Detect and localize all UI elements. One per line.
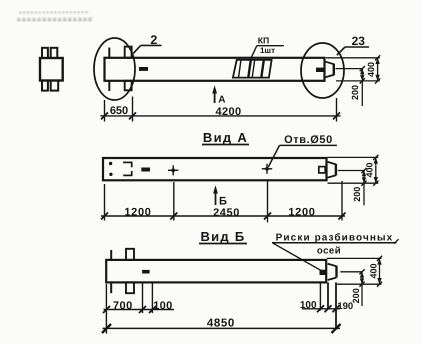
- section top tab 1: [42, 48, 48, 58]
- right end notch (filled) top view: [316, 68, 324, 72]
- dimension row left (700/100): [103, 282, 174, 333]
- dimension 200 (view B): [351, 269, 365, 306]
- svg-text:1шт: 1шт: [260, 46, 275, 55]
- right end console trapezoid view B: [328, 264, 337, 280]
- svg-text:4200: 4200: [215, 106, 241, 118]
- svg-text:200: 200: [352, 187, 362, 202]
- svg-text:Вид Б: Вид Б: [200, 229, 245, 244]
- svg-text:1200: 1200: [124, 206, 151, 218]
- svg-text:23: 23: [352, 34, 366, 48]
- dimension row right (100/190): [302, 305, 340, 312]
- label Otv d50: [268, 134, 337, 167]
- svg-text:200: 200: [350, 85, 360, 100]
- beam outline view B: [106, 260, 326, 283]
- svg-text:Отв.Ø50: Отв.Ø50: [284, 134, 333, 146]
- svg-text:осей: осей: [317, 245, 341, 256]
- extension bottom (view A 400): [328, 182, 379, 184]
- svg-text:190: 190: [337, 301, 353, 312]
- svg-text:4850: 4850: [207, 318, 235, 330]
- svg-text:400: 400: [369, 263, 379, 278]
- label 2: [133, 33, 161, 53]
- detail ellipse right (node 23): [301, 43, 344, 98]
- svg-text:400: 400: [366, 62, 376, 77]
- note Riski razbivochnyh osey: [272, 233, 399, 272]
- axis line to 200 dim (view A): [338, 170, 364, 172]
- svg-text:Вид А: Вид А: [203, 130, 248, 145]
- right end console trapezoid top view: [326, 62, 334, 77]
- section top tab 2: [51, 48, 58, 58]
- section bottom tab 1: [42, 81, 48, 91]
- dimension line top view (650 / 4200): [101, 97, 341, 122]
- hidden bracket mark view A: [123, 162, 133, 175]
- label 23: [337, 34, 369, 55]
- dimension 400 (view B): [369, 256, 383, 287]
- faint erased pencil smudge top-left: [17, 12, 93, 21]
- view arrow A: [212, 85, 225, 105]
- title Vid B: [199, 229, 247, 244]
- svg-text:1200: 1200: [288, 206, 315, 218]
- title Vid A: [202, 130, 249, 145]
- svg-text:КП: КП: [258, 35, 270, 45]
- svg-text:100: 100: [153, 300, 172, 312]
- beam outline top view: [105, 58, 325, 81]
- dimension 200 (view A): [352, 168, 367, 206]
- rivet dots view A: [109, 162, 112, 165]
- risk extension lines right (view B): [320, 282, 336, 328]
- extension line top (top view 400): [326, 57, 380, 59]
- svg-text:650: 650: [110, 105, 128, 117]
- beam outline view A: [103, 158, 327, 180]
- label KP 1sht: [251, 35, 284, 58]
- embedded mark dash view A: [141, 168, 150, 172]
- section body square: [40, 48, 63, 91]
- dimension line view A (1200/2450/1200): [101, 181, 346, 223]
- left end tabs top view: [109, 47, 131, 91]
- axis line to 200 dim (view B): [340, 271, 362, 273]
- extension top (view A 400): [328, 156, 379, 158]
- dimension 400 (top view): [366, 55, 380, 83]
- right end console trapezoid view A: [328, 162, 336, 178]
- axis line to 200 dim (top view): [336, 68, 363, 70]
- svg-text:400: 400: [365, 162, 375, 177]
- extension bottom (view B 400): [337, 283, 382, 285]
- svg-text:100: 100: [300, 300, 317, 311]
- right end notch (filled) view B: [320, 270, 327, 275]
- dimension 400 (view A): [365, 155, 379, 186]
- embedded mark dash (top view): [139, 67, 148, 71]
- extension top (view B 400): [327, 257, 382, 259]
- right end notch (open) view A: [319, 167, 325, 173]
- svg-text:2450: 2450: [213, 207, 240, 219]
- svg-text:700: 700: [113, 300, 133, 312]
- dimension 4850 overall: [102, 324, 341, 333]
- hole cross mark 2: [262, 164, 272, 174]
- left end tabs view B: [111, 249, 134, 293]
- svg-text:А: А: [218, 95, 225, 106]
- plate KP on beam: [233, 60, 272, 78]
- extension line bottom (top view 400): [336, 80, 380, 82]
- embedded mark dash view B: [142, 270, 150, 274]
- section bottom tab 2: [51, 81, 59, 91]
- dimension 200 (top view): [350, 66, 365, 106]
- detail ellipse left (node 2): [94, 38, 135, 100]
- hole cross mark 1: [168, 165, 178, 175]
- svg-text:Б: Б: [219, 195, 227, 207]
- view arrow B: [213, 185, 227, 207]
